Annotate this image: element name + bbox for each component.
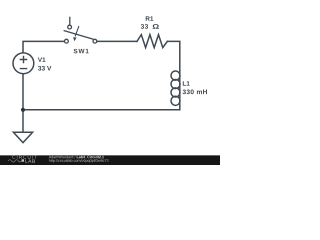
wire: SW1 right terminal to R1 (97, 40, 137, 42)
CircuitLab logo (8, 155, 37, 162)
ground (13, 132, 32, 142)
inductor L1 (171, 71, 180, 105)
wire: L1 bottom to bottom-right corner and left to junction (23, 71, 180, 110)
voltage source V1 (13, 53, 34, 74)
switch SW1 (64, 17, 97, 43)
wire: junction down to ground (22, 110, 24, 132)
label V1 value (38, 58, 51, 71)
switch lever (64, 31, 94, 40)
switch top stub (69, 17, 71, 25)
wire: R1 to top-right corner and down (167, 41, 180, 71)
wire: top-left from V1 up and right to SW1 (23, 41, 64, 53)
resistor R1 (137, 35, 167, 48)
wire: junction up to V1 bottom (22, 74, 24, 110)
switch terminal circles (65, 39, 69, 43)
label SW1 (74, 49, 89, 54)
footer text (49, 156, 109, 163)
node junction dot (21, 108, 25, 112)
switch toggle arrow (75, 26, 79, 37)
label L1 value (183, 81, 207, 94)
label R1 value (141, 16, 159, 28)
footer bar (0, 155, 220, 165)
